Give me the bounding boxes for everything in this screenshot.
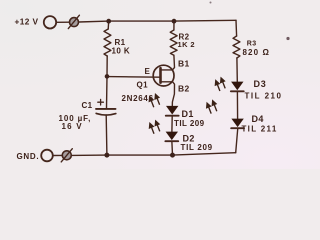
diode D2 triangle [166, 132, 178, 141]
LED arrows D2 [150, 121, 160, 134]
svg-text:R3: R3 [247, 40, 257, 47]
wire R2 to B1 [161, 55, 175, 70]
svg-text:D3: D3 [254, 79, 267, 89]
+12V terminal circle [44, 16, 56, 28]
junction dot node E [105, 74, 110, 79]
junction dot bottom C1 [104, 153, 109, 158]
svg-text:16 V: 16 V [62, 122, 83, 131]
wire top rail [79, 20, 236, 22]
svg-text:TIL 211: TIL 211 [242, 124, 278, 133]
transistor Q1 circle [153, 65, 174, 86]
diode D4 [231, 127, 244, 129]
capacitor C1 [96, 109, 116, 115]
wire terminal to plug (+12V) [57, 21, 70, 23]
svg-text:GND.: GND. [17, 152, 40, 161]
svg-text:Q1: Q1 [137, 80, 149, 89]
wire B2 to D1 [161, 82, 175, 106]
wire D2 to bottom rail [171, 142, 174, 155]
wire emitter [107, 76, 160, 79]
wire node E to C1 [106, 76, 109, 108]
diode D4 triangle [231, 119, 243, 128]
svg-text:10 K: 10 K [112, 46, 131, 55]
wire C1 to bottom rail [105, 115, 108, 155]
diode D2 [165, 140, 178, 142]
transistor Q1 base bar [159, 68, 162, 82]
C1 plus sign [98, 99, 104, 105]
resistor R2 [170, 30, 177, 55]
svg-text:+12 V: +12 V [15, 16, 39, 26]
junction dot top R1 [106, 19, 111, 24]
svg-text:C1: C1 [82, 101, 93, 110]
svg-text:D4: D4 [252, 114, 264, 124]
wire top rail corner to R3 [235, 20, 238, 36]
svg-text:TIL 210: TIL 210 [245, 92, 283, 101]
svg-text:D2: D2 [183, 133, 195, 143]
svg-text:B2: B2 [178, 84, 190, 94]
LED arrows D4 [207, 101, 217, 114]
plug symbol (crossed circle, GND) [61, 149, 72, 162]
svg-text:B1: B1 [178, 58, 190, 68]
svg-text:E: E [145, 67, 151, 76]
wire top rail to R2 [173, 21, 175, 30]
resistor R3 [233, 36, 240, 58]
diode D3 triangle [231, 82, 243, 91]
wire D4 to bottom rail [236, 129, 238, 153]
plug symbol (crossed circle, +12V) [68, 15, 79, 28]
wire D3 to D4 [236, 92, 238, 119]
LED arrows D3 [215, 78, 225, 91]
wire R3 to D3 [236, 58, 238, 82]
LED arrows D1 [149, 94, 159, 107]
wire bottom rail [72, 153, 236, 156]
diode D1 triangle [166, 106, 178, 115]
svg-text:2N2646: 2N2646 [122, 94, 154, 103]
diode D1 [166, 115, 179, 117]
svg-text:D1: D1 [182, 109, 194, 119]
svg-text:820 Ω: 820 Ω [243, 48, 270, 57]
junction dot bottom D2 [170, 153, 175, 158]
wire D1 to D2 [171, 117, 173, 132]
svg-text:TIL 209: TIL 209 [181, 143, 213, 152]
junction dot top R2 [172, 19, 177, 24]
GND terminal circle [41, 150, 53, 162]
svg-text:1K 2: 1K 2 [178, 40, 195, 49]
wire terminal to plug (GND) [53, 154, 62, 156]
diode D3 [231, 90, 244, 92]
resistor R1 [104, 29, 111, 56]
wire R1 to node E [106, 56, 108, 76]
svg-text:TIL 209: TIL 209 [174, 119, 205, 128]
wire top rail to R1 [107, 21, 110, 29]
